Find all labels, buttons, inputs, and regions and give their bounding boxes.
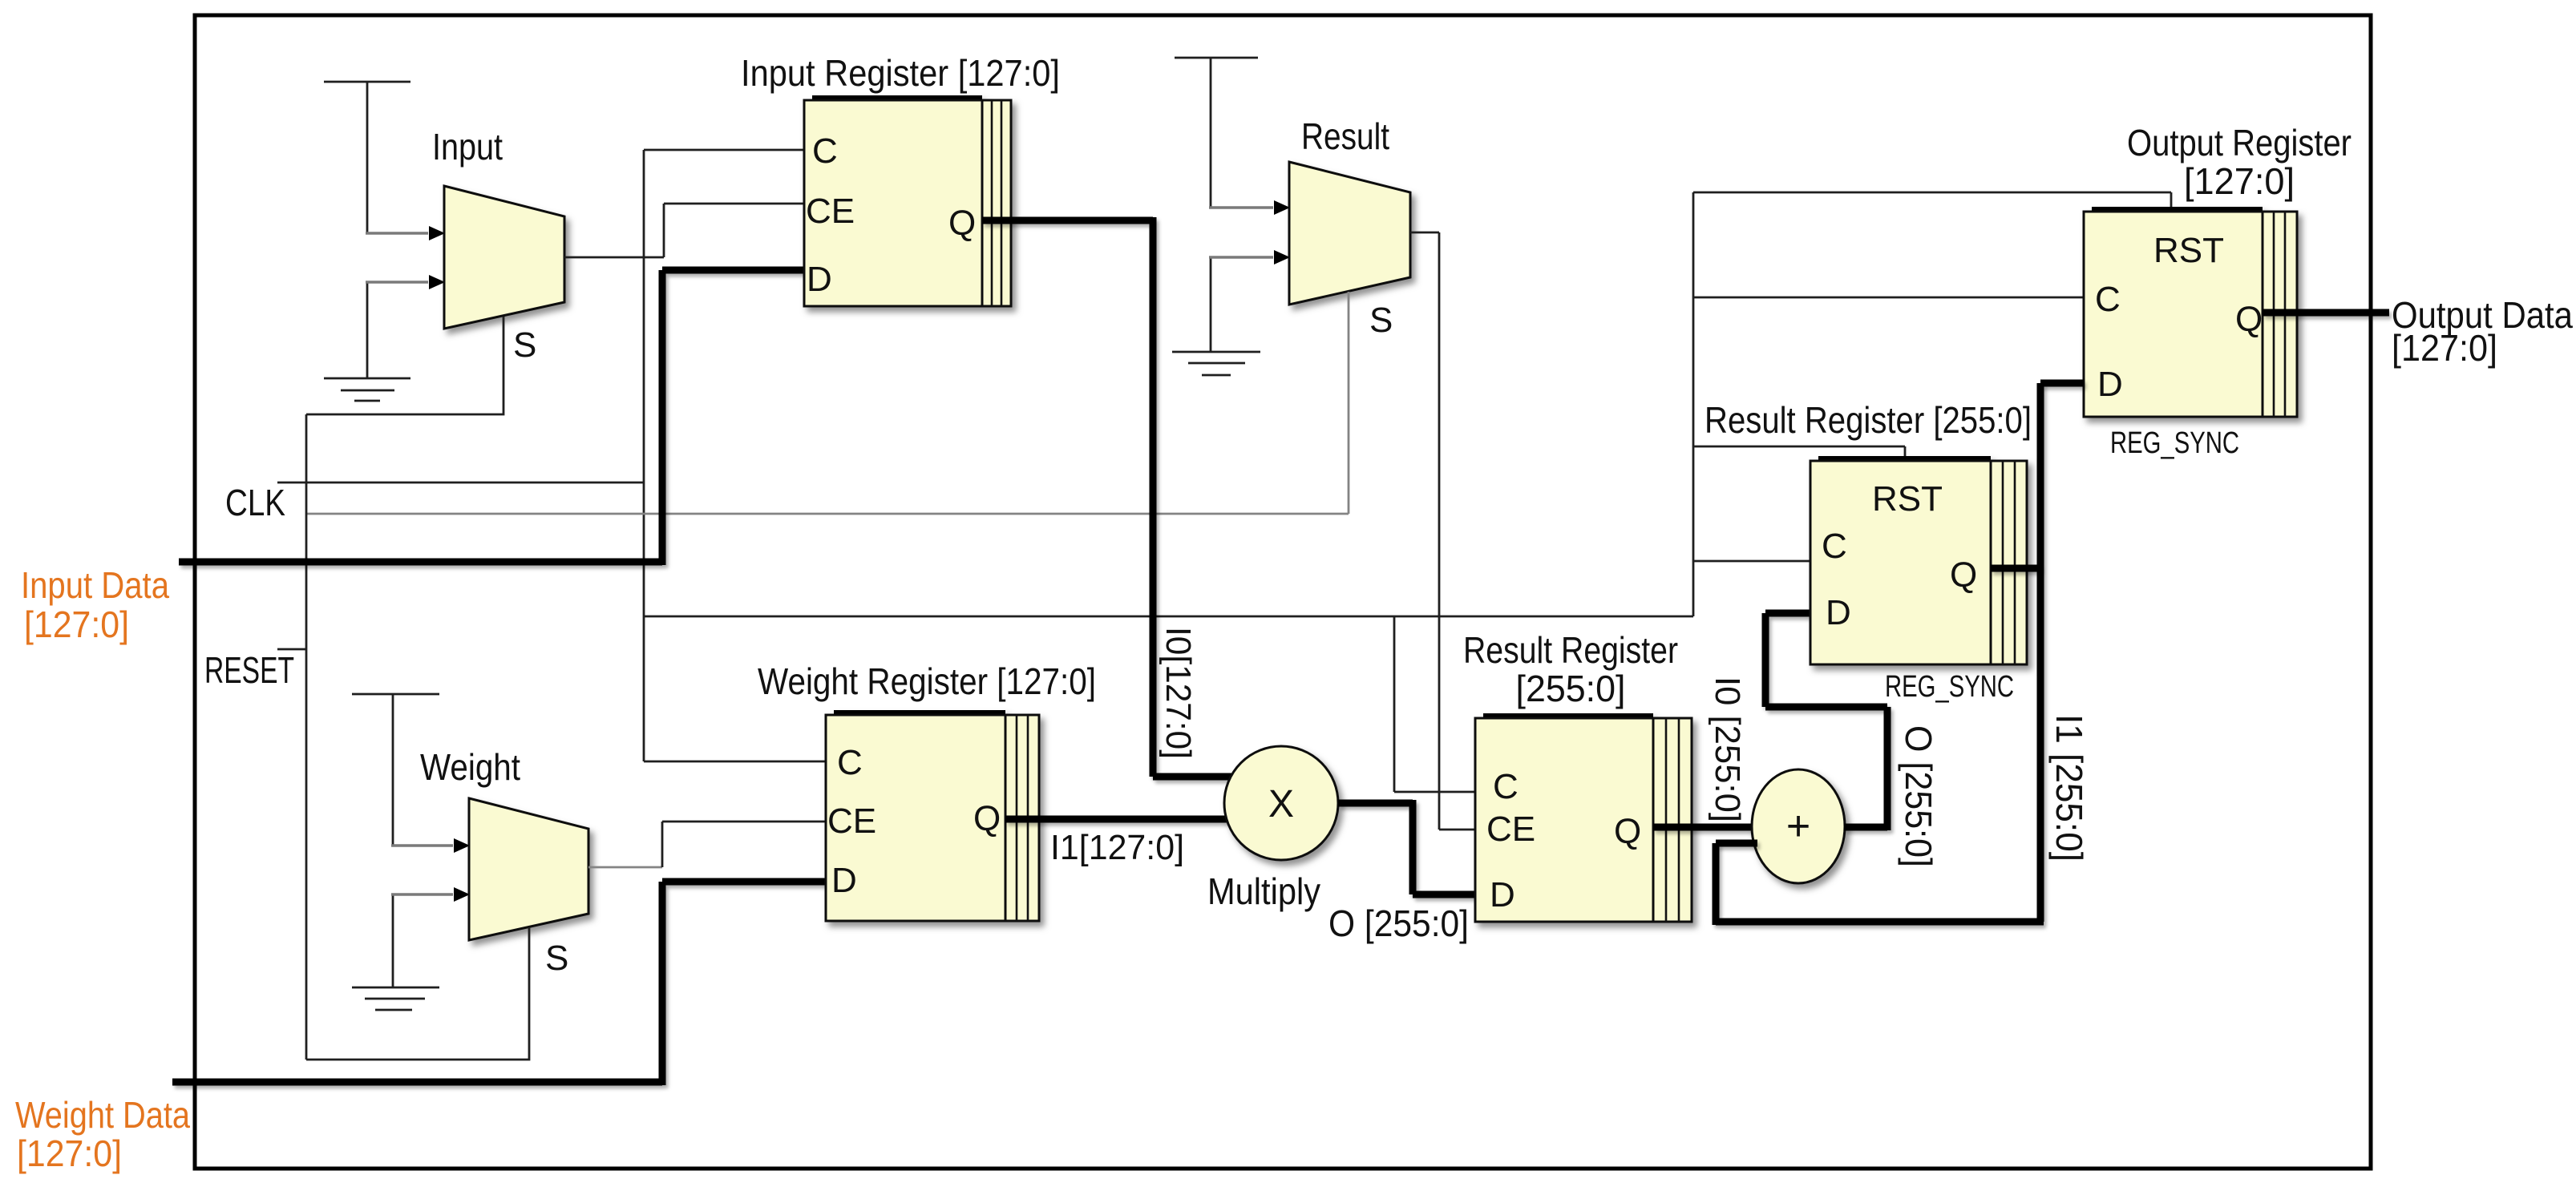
svg-text:+: + <box>1786 803 1810 850</box>
svg-text:Input: Input <box>432 126 503 168</box>
wire CLK to Weight Register C <box>644 761 826 763</box>
wire Input Data (thick) <box>179 270 804 565</box>
wire weight mux S to RESET rail <box>306 927 529 1060</box>
svg-text:[255:0]: [255:0] <box>1516 668 1626 709</box>
svg-text:Q: Q <box>1614 812 1641 851</box>
svg-text:Q: Q <box>2235 300 2263 339</box>
wire result mux out to Result Register CE <box>1410 232 1475 830</box>
svg-text:S: S <box>513 325 536 365</box>
svg-text:D: D <box>831 861 857 900</box>
register Result Register [255:0] REG_SYNC <box>1810 458 2027 664</box>
svg-text:S: S <box>545 939 568 978</box>
wire CLK riser to Result Register C <box>1394 616 1475 792</box>
svg-text:[127:0]: [127:0] <box>2392 327 2497 369</box>
wire adder I1 input (thick) <box>1716 840 1757 847</box>
svg-text:Input Register [127:0]: Input Register [127:0] <box>741 52 1060 94</box>
wire input mux out to CE riser <box>564 204 804 257</box>
svg-text:Weight Register [127:0]: Weight Register [127:0] <box>758 660 1096 702</box>
svg-text:Weight Data: Weight Data <box>15 1094 190 1136</box>
svg-text:[127:0]: [127:0] <box>17 1132 122 1174</box>
wire CLK to Input Register C <box>644 149 804 151</box>
svg-text:[127:0]: [127:0] <box>2184 160 2295 202</box>
wire I1 from Weight Register Q to multiplier (thick) <box>1005 816 1227 823</box>
svg-text:C: C <box>2095 280 2121 319</box>
wire to Output Register C <box>1693 297 2084 299</box>
wire input mux in1 <box>366 275 445 378</box>
svg-text:O [255:0]: O [255:0] <box>1898 725 1939 867</box>
register Input Register [127:0] <box>804 98 1011 306</box>
svg-text:CE: CE <box>827 801 876 841</box>
wire CLK branch to right registers <box>644 616 1693 618</box>
svg-text:O [255:0]: O [255:0] <box>1328 902 1469 944</box>
supply bar (result mux const input) <box>1175 58 1258 208</box>
mux Result <box>1289 162 1410 305</box>
mux Weight <box>469 798 588 940</box>
wire CLK tick <box>277 482 644 484</box>
ground (input mux) <box>324 378 410 401</box>
wire Result Register Q to adder I0 (thick) <box>1653 824 1756 831</box>
svg-text:C: C <box>812 131 838 171</box>
svg-text:Weight: Weight <box>420 746 520 788</box>
wire to Output Register RST <box>1693 192 2171 212</box>
svg-text:S: S <box>1369 301 1393 340</box>
supply bar (weight mux const input) <box>352 694 439 846</box>
svg-text:RST: RST <box>1872 479 1943 519</box>
svg-text:C: C <box>837 743 863 782</box>
mux Input <box>444 186 564 329</box>
wire I0 from Input Register Q to multiplier (thick) <box>982 217 1232 777</box>
register Output Register [127:0] <box>2084 209 2297 417</box>
svg-text:C: C <box>1493 767 1519 806</box>
wire weight mux out <box>588 822 826 867</box>
svg-text:D: D <box>807 260 832 299</box>
multiplier X <box>1224 746 1338 860</box>
svg-text:Q: Q <box>948 204 976 243</box>
wire multiplier out O to Result Register D (thick) <box>1338 800 1475 894</box>
svg-text:D: D <box>1490 875 1515 914</box>
svg-text:D: D <box>1826 593 1851 632</box>
wire result mux S <box>1348 292 1350 514</box>
svg-text:RESET: RESET <box>204 649 294 691</box>
register Result Register [255:0] <box>1475 716 1692 922</box>
wire weight mux in1 <box>391 887 470 987</box>
wire select line to Result mux S <box>306 513 1349 515</box>
svg-text:CE: CE <box>806 192 855 231</box>
wire Output Data (thick) <box>2263 309 2389 317</box>
svg-text:CE: CE <box>1486 810 1535 849</box>
svg-text:RST: RST <box>2153 231 2224 270</box>
svg-text:Input Data: Input Data <box>21 564 169 606</box>
wire result mux in0 <box>1209 200 1290 215</box>
ground (result mux) <box>1172 352 1260 375</box>
svg-text:I0 [255:0]: I0 [255:0] <box>1708 676 1747 822</box>
node RESET rail <box>305 414 308 1060</box>
supply bar (input mux const input) <box>324 81 410 83</box>
svg-text:[127:0]: [127:0] <box>24 604 129 645</box>
wire Weight Data (thick) <box>172 882 826 1085</box>
wire adder out O to REG_SYNC D (thick) <box>1765 613 1887 830</box>
wire to Result REG_SYNC RST <box>1693 446 1905 461</box>
svg-text:REG_SYNC: REG_SYNC <box>1885 670 2014 704</box>
wire RESET tick <box>277 648 306 651</box>
svg-text:I1[127:0]: I1[127:0] <box>1050 828 1184 867</box>
svg-text:I1 [255:0]: I1 [255:0] <box>2048 714 2090 862</box>
wire to Result REG_SYNC C <box>1693 560 1810 563</box>
ground (weight mux) <box>352 987 439 1010</box>
wire input mux in0 <box>366 82 445 240</box>
wire I1 feedback (thick) <box>1716 383 2044 925</box>
node CLK rail <box>643 150 645 761</box>
register Weight Register [127:0] <box>826 713 1039 921</box>
svg-text:REG_SYNC: REG_SYNC <box>2110 426 2239 460</box>
wire REG_SYNC Q to I1 rail (thick) <box>1991 565 2040 572</box>
wire weight mux in0 <box>391 838 470 853</box>
svg-text:Result Register: Result Register <box>1463 629 1678 671</box>
svg-text:Result Register [255:0]: Result Register [255:0] <box>1705 399 2032 441</box>
svg-text:Multiply: Multiply <box>1207 870 1320 912</box>
svg-text:I0[127:0]: I0[127:0] <box>1159 627 1198 759</box>
svg-text:C: C <box>1822 527 1847 566</box>
svg-text:X: X <box>1268 783 1294 826</box>
svg-text:Q: Q <box>973 799 1001 838</box>
svg-text:Output Register: Output Register <box>2127 122 2352 164</box>
svg-text:D: D <box>2097 365 2123 404</box>
svg-text:Q: Q <box>1950 555 1977 595</box>
svg-text:CLK: CLK <box>225 482 285 523</box>
adder + <box>1752 769 1845 883</box>
wire result mux in1 <box>1209 250 1290 352</box>
wire input mux S to RESET rail <box>306 317 503 414</box>
svg-text:Result: Result <box>1301 115 1389 157</box>
wire Output Register D input (thick) <box>2040 380 2084 387</box>
node C/RST distribution rail <box>1692 192 1695 616</box>
